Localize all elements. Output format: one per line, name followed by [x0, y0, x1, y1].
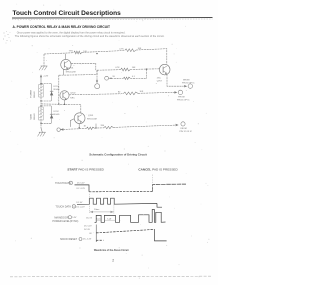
diode D702	[51, 106, 53, 123]
wire Q701 collector	[64, 54, 66, 60]
resistor R707 330	[104, 126, 114, 128]
relay coil RY2	[39, 107, 44, 120]
svg-text:5.2V: 5.2V	[72, 217, 77, 219]
svg-text:Touch Control Circuit Descript: Touch Control Circuit Descriptions	[13, 10, 122, 17]
bottom scan artifact line	[10, 275, 211, 278]
wire D702 bottom	[41, 122, 52, 124]
ground G2	[39, 131, 46, 133]
wire top rail mid	[82, 51, 125, 53]
node junction bottom	[95, 127, 96, 128]
svg-text:TOUCH DATA: TOUCH DATA	[55, 182, 71, 185]
row2 right notch	[157, 203, 162, 207]
svg-text:DC 0V: DC 0V	[76, 202, 83, 204]
svg-text:Q707: Q707	[157, 81, 163, 83]
svg-text:FROM: FROM	[178, 97, 184, 99]
waveform touch data 1	[75, 185, 90, 192]
resistor R704	[123, 77, 130, 79]
schematic caption	[89, 152, 147, 156]
svg-text:RG4D: RG4D	[54, 89, 60, 91]
node connector circle	[95, 84, 100, 89]
transistor Q704	[74, 113, 85, 124]
power relay rail	[40, 84, 42, 128]
row2 level labels	[76, 202, 83, 204]
svg-text:CANCEL PAD IS PRESSED: CANCEL PAD IS PRESSED	[138, 167, 178, 171]
label main door relay	[54, 216, 68, 219]
ground G1	[41, 65, 48, 67]
wire top rail	[44, 53, 74, 54]
wire vertical to connector	[96, 70, 98, 81]
label pin16	[178, 97, 184, 99]
svg-text:Q701: Q701	[68, 68, 74, 70]
svg-text:PIN 12 OF IC: PIN 12 OF IC	[179, 131, 192, 133]
resistor R706 1K	[87, 127, 95, 129]
wire vertical left of Q702	[58, 75, 60, 104]
connector circle B	[105, 76, 109, 80]
svg-text:FROM: FROM	[181, 128, 187, 130]
svg-text:DC 5.2V: DC 5.2V	[77, 183, 85, 185]
svg-text:4.7K: 4.7K	[115, 67, 120, 69]
svg-text:PIN 16 OF IC: PIN 16 OF IC	[177, 100, 190, 102]
resistor R702 10K	[125, 49, 136, 52]
wire Q701 base	[71, 63, 96, 70]
waveform micom reset	[96, 239, 103, 241]
svg-text:RG4D: RG4D	[54, 114, 60, 116]
wire B	[109, 77, 124, 79]
wire A to Q703 base	[130, 68, 159, 71]
wire Q703 emitter to connector	[167, 74, 184, 86]
wire Q704 emitter	[78, 124, 80, 128]
svg-text:DC 5.2V: DC 5.2V	[84, 226, 92, 228]
svg-text:2SC: 2SC	[157, 78, 162, 80]
wire Q701 emitter	[62, 69, 64, 75]
waveform row4	[96, 229, 154, 233]
header cancel pressed	[138, 167, 178, 171]
svg-text:PIN 30 OF IC: PIN 30 OF IC	[182, 83, 195, 85]
cancel marker line	[152, 175, 154, 193]
svg-text:A. POWER CONTROL RELAY & MAIN: A. POWER CONTROL RELAY & MAIN RELAY DRIV…	[13, 25, 110, 29]
+12V supply arrow	[40, 77, 42, 84]
10ms dimension	[89, 194, 91, 214]
resistor R703	[121, 68, 131, 71]
wire W2 emitter rail	[59, 70, 97, 75]
transistor Q703	[159, 64, 170, 75]
connector circle pin30	[188, 84, 192, 88]
svg-text:DC -5.2V: DC -5.2V	[83, 238, 92, 240]
transistor Q702	[60, 91, 69, 100]
wire bottom rail	[60, 129, 86, 130]
wire D702 top	[41, 105, 52, 107]
svg-text:4.7K: 4.7K	[119, 48, 124, 50]
label pin12	[181, 128, 187, 130]
svg-text:Q703: Q703	[88, 115, 94, 117]
node dots relay1	[40, 83, 41, 84]
connector circle bottom left	[57, 128, 60, 131]
node dots relay2	[40, 105, 41, 106]
row4 level labels	[84, 226, 92, 228]
label main relay	[30, 113, 33, 119]
label pin30	[183, 80, 189, 82]
body text line 1	[17, 30, 126, 34]
scan speckle	[10, 4, 209, 279]
svg-text:TOUCH DATA: TOUCH DATA	[55, 206, 71, 209]
svg-text:10ms: 10ms	[94, 209, 100, 211]
transistor Q701	[61, 59, 71, 69]
row1 level labels	[77, 183, 85, 185]
wire D701 bottom	[41, 100, 52, 102]
label power relay	[31, 89, 33, 97]
label micom reset	[60, 238, 77, 241]
wire B right	[130, 77, 146, 79]
row4 axis tick	[95, 225, 97, 243]
page number	[112, 258, 114, 262]
wire C right	[138, 91, 175, 94]
wire top rail right	[136, 49, 167, 64]
svg-text:D701: D701	[54, 86, 60, 88]
node junction A	[146, 69, 147, 70]
svg-text:10K: 10K	[140, 91, 144, 93]
body text line 2	[15, 34, 165, 38]
title rule	[12, 17, 213, 20]
svg-text:D702: D702	[54, 111, 60, 113]
connector circle pin16	[178, 90, 182, 94]
svg-text:DC 0V: DC 0V	[84, 229, 91, 231]
margin smudge	[3, 31, 11, 43]
wire bottom rail mid	[95, 127, 105, 129]
resistor R701 10K	[74, 51, 82, 54]
wire Q702 emitter	[64, 100, 66, 104]
svg-text:DC -5.2V: DC -5.2V	[77, 188, 86, 190]
wire node2 to Q704 collector	[41, 104, 81, 113]
wire Q704 base	[70, 119, 74, 127]
label touch data 2	[55, 206, 71, 209]
wire A base rail	[97, 69, 121, 72]
diode D701	[51, 84, 53, 101]
page title	[13, 10, 122, 17]
svg-text:MICON RESET: MICON RESET	[60, 238, 77, 241]
svg-text:2: 2	[112, 258, 114, 262]
svg-text:START PAD IS PRESSED: START PAD IS PRESSED	[67, 168, 104, 172]
stub up	[95, 124, 97, 128]
label touch data 1	[55, 182, 71, 185]
wire junction A down	[146, 69, 148, 78]
svg-text:KRC: KRC	[70, 97, 75, 99]
section heading	[13, 25, 110, 29]
svg-text:+12V: +12V	[43, 75, 49, 77]
connector circle pin12	[181, 122, 185, 126]
resistor R705	[124, 92, 139, 95]
waveform caption	[94, 249, 129, 252]
T-on T-off labels	[96, 218, 100, 220]
svg-text:DC 0V: DC 0V	[86, 217, 93, 219]
waveform touch data 2	[77, 198, 157, 204]
svg-text:KRC102M: KRC102M	[66, 72, 76, 74]
wire D701 top	[41, 83, 52, 85]
svg-text:POWER: POWER	[31, 89, 33, 97]
svg-text:Q702: Q702	[70, 93, 76, 95]
svg-text:KRC102M: KRC102M	[87, 119, 97, 121]
relay coil RY1	[39, 85, 44, 98]
wire bottom rail right	[114, 125, 176, 127]
svg-text:POWER LEVEL(SYNC): POWER LEVEL(SYNC)	[52, 220, 78, 223]
svg-text:DC -5.2V: DC -5.2V	[76, 207, 85, 209]
svg-text:10K: 10K	[132, 67, 136, 69]
header start pressed	[67, 168, 104, 172]
wire to ground left	[43, 54, 45, 66]
wire C	[69, 94, 123, 95]
svg-text:Schematic Configuration of Dri: Schematic Configuration of Driving Circu…	[89, 152, 147, 156]
svg-text:MAIN/DOOR: MAIN/DOOR	[54, 216, 68, 219]
waveform main relay	[95, 210, 166, 223]
